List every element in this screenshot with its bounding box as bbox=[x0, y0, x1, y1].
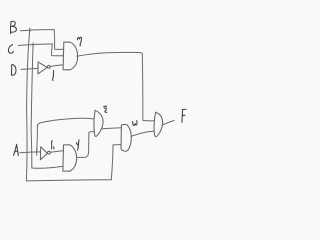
wire D inverter to X gate bottom input bbox=[50, 65, 62, 67]
wire A inverter to y gate upper input bbox=[50, 151, 62, 153]
input label C bbox=[8, 45, 13, 54]
wire A input bbox=[20, 151, 40, 154]
wire w output to F gate lower input bbox=[131, 131, 154, 136]
output label F bbox=[182, 109, 186, 122]
wire Z output to w gate upper input bbox=[102, 128, 121, 129]
bottom wire to w gate riser bbox=[26, 180, 111, 181]
wire B step into X gate top input bbox=[54, 30, 63, 50]
wire C step into X gate middle input bbox=[52, 44, 64, 56]
vertical rail from B junction down left side bbox=[26, 30, 29, 181]
label 1 bbox=[53, 71, 54, 81]
wire A branch up and right to Z gate upper input bbox=[37, 118, 94, 151]
label w bbox=[133, 121, 137, 126]
label Z bbox=[104, 106, 107, 112]
AND gate y bbox=[63, 145, 77, 171]
wire B input bbox=[21, 30, 55, 31]
label X bbox=[77, 37, 81, 45]
inverter 2 on A : triangle bbox=[40, 147, 47, 160]
input label D bbox=[12, 65, 16, 76]
riser up to w gate lower input bbox=[111, 145, 120, 180]
wire y output up to Z gate lower input bbox=[77, 132, 95, 158]
node C junction bbox=[32, 43, 34, 47]
label y bbox=[76, 140, 79, 150]
wire D input bbox=[21, 68, 38, 69]
wire F output bbox=[162, 120, 174, 125]
OR gate Z bbox=[94, 110, 103, 136]
node B junction bbox=[29, 28, 31, 32]
OR gate F bbox=[154, 112, 163, 137]
label k bbox=[52, 141, 55, 149]
node A branch junction bbox=[36, 149, 38, 156]
AND gate X bbox=[63, 42, 78, 70]
AND gate w bbox=[121, 124, 131, 151]
inverter 1 bubble bbox=[48, 65, 51, 68]
vertical rail from C junction down bbox=[31, 45, 33, 168]
input label A bbox=[14, 144, 19, 155]
input label B bbox=[10, 21, 16, 33]
wire X output routed to F gate upper input bbox=[77, 52, 155, 121]
inverter 2 bubble bbox=[48, 151, 51, 154]
inverter 1 on D : triangle bbox=[38, 62, 47, 74]
wire into y gate lower input bbox=[32, 166, 63, 168]
wire C input bbox=[19, 44, 53, 46]
